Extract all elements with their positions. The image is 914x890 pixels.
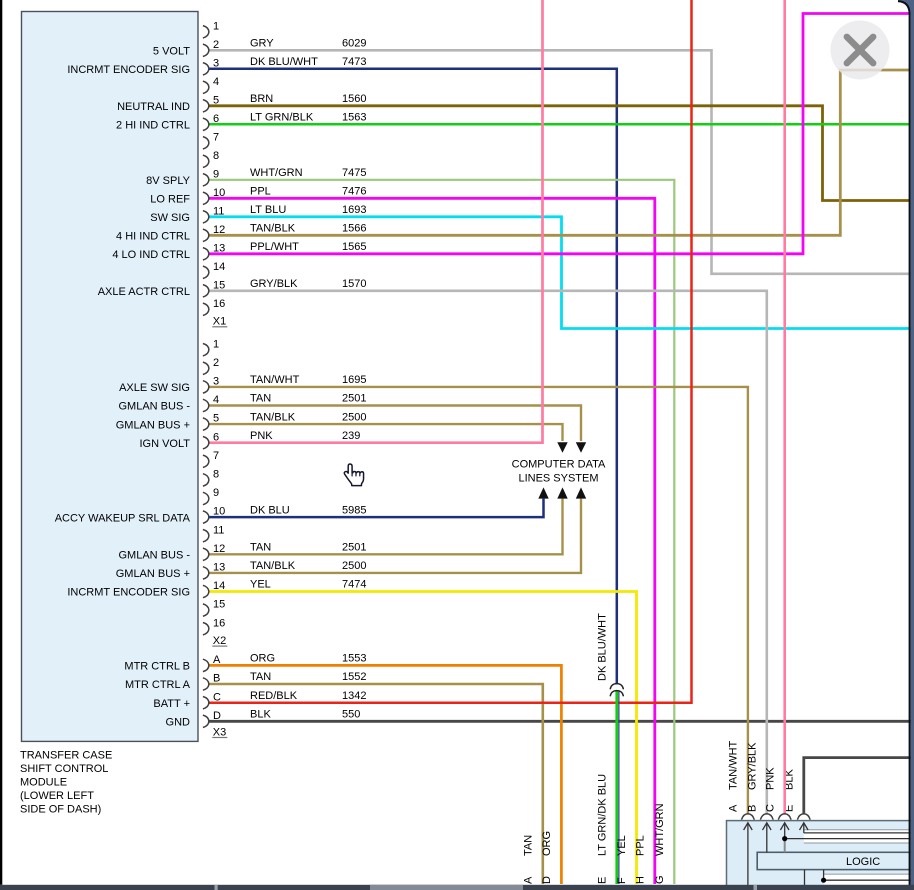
svg-text:3: 3 — [213, 57, 219, 69]
svg-text:1: 1 — [213, 20, 219, 32]
svg-text:PPL: PPL — [635, 835, 647, 856]
logic internal white channel lower — [824, 874, 914, 886]
logic output line with junction to right — [824, 870, 914, 881]
logic pin B connector arc — [760, 814, 773, 820]
connector X2 pin 7 — [203, 450, 219, 468]
transfer case shift control module box — [22, 12, 199, 742]
svg-text:4 HI IND CTRL: 4 HI IND CTRL — [116, 231, 190, 243]
wire LT BLU 1693 from X1 pin 11 — [208, 217, 914, 329]
window left border — [0, 0, 2, 885]
svg-text:4: 4 — [213, 394, 219, 406]
svg-text:16: 16 — [213, 298, 225, 310]
svg-text:10: 10 — [213, 506, 225, 518]
connector X1 pin 6 — [203, 113, 219, 131]
svg-text:D: D — [213, 710, 221, 722]
svg-text:1553: 1553 — [342, 653, 366, 665]
X2 pin 4 wire label TAN 2501 — [250, 393, 366, 405]
connector X2 pin 6 — [203, 431, 219, 449]
X2 pin 5 wire label TAN/BLK 2500 — [250, 411, 366, 423]
svg-text:X3: X3 — [213, 726, 226, 738]
svg-text:TAN/WHT: TAN/WHT — [728, 740, 740, 790]
svg-text:2 HI IND CTRL: 2 HI IND CTRL — [116, 120, 190, 132]
connector X1 pin 12 — [203, 224, 225, 242]
svg-text:LT GRN/DK BLU: LT GRN/DK BLU — [597, 774, 609, 856]
X1 pin 15 wire label GRY/BLK 1570 — [250, 278, 366, 290]
svg-text:6: 6 — [213, 431, 219, 443]
svg-text:8V SPLY: 8V SPLY — [146, 175, 190, 187]
svg-text:12: 12 — [213, 224, 225, 236]
wire TAN/BLK 1566 from X1 pin 12 — [208, 70, 910, 235]
svg-text:BRN: BRN — [250, 93, 273, 105]
arrowhead up at computer data lines col 543 — [538, 487, 548, 498]
wire LT GRN/DK BLU continuation of 7473 — [615, 691, 618, 884]
arrowhead up at computer data lines col 581 — [576, 487, 586, 498]
X3 pin A wire label ORG 1553 — [250, 653, 366, 665]
window right border line — [898, 1, 910, 890]
wire ORG 1553 from X3 pin A — [208, 665, 561, 884]
svg-text:1563: 1563 — [342, 112, 366, 124]
connector X3 pin D — [203, 710, 221, 728]
svg-text:LOGIC: LOGIC — [846, 856, 880, 868]
svg-text:10: 10 — [213, 187, 225, 199]
X1 pin 11 wire label LT BLU 1693 — [250, 204, 366, 216]
svg-text:TAN: TAN — [250, 671, 271, 683]
svg-text:7476: 7476 — [342, 186, 366, 198]
svg-text:DK BLU/WHT: DK BLU/WHT — [597, 613, 609, 681]
svg-text:WHT/GRN: WHT/GRN — [250, 167, 303, 179]
svg-text:B: B — [747, 805, 759, 812]
wire PNK to logic pin C — [783, 0, 786, 813]
svg-text:GND: GND — [166, 717, 191, 729]
svg-text:AXLE ACTR CTRL: AXLE ACTR CTRL — [98, 286, 190, 298]
wire TAN/BLK 2500 from X2 pin 13 to computer data lines — [208, 499, 581, 573]
svg-text:7473: 7473 — [342, 56, 366, 68]
svg-text:TAN: TAN — [523, 835, 535, 856]
svg-text:INCRMT ENCODER SIG: INCRMT ENCODER SIG — [67, 587, 190, 599]
svg-text:MTR CTRL B: MTR CTRL B — [124, 661, 190, 673]
connector X1 pin 15 — [203, 279, 225, 297]
X1 pin 2 wire label GRY 6029 — [250, 38, 366, 50]
svg-text:4 LO IND CTRL: 4 LO IND CTRL — [112, 249, 190, 261]
svg-text:3: 3 — [213, 376, 219, 388]
wire TAN/WHT 1695 from X2 pin 3 — [208, 387, 748, 814]
svg-text:H: H — [635, 876, 647, 884]
svg-text:DK BLU: DK BLU — [250, 504, 290, 516]
svg-text:2501: 2501 — [342, 542, 366, 554]
svg-text:MODULE: MODULE — [20, 777, 67, 789]
wire BRN 1560 from X1 pin 5 — [208, 106, 910, 201]
svg-text:LT BLU: LT BLU — [250, 204, 286, 216]
X2 pin 14 wire label YEL 7474 — [250, 579, 366, 591]
svg-text:12: 12 — [213, 543, 225, 555]
svg-text:BATT +: BATT + — [153, 698, 190, 710]
logic pin A connector arc — [742, 814, 755, 820]
connector X1 pin 7 — [203, 131, 219, 149]
mouse cursor (hand pointer) — [344, 464, 363, 486]
svg-text:LT GRN/BLK: LT GRN/BLK — [250, 112, 314, 124]
X3 pin C wire label RED/BLK 1342 — [250, 690, 366, 702]
svg-text:WHT/GRN: WHT/GRN — [654, 803, 666, 856]
svg-text:11: 11 — [213, 205, 224, 217]
connector X2 pin 9 — [203, 487, 219, 505]
svg-text:5: 5 — [213, 94, 219, 106]
svg-text:14: 14 — [213, 261, 225, 273]
wire BLK 550 from X3 pin D — [208, 720, 914, 723]
svg-text:E: E — [597, 877, 609, 884]
wire RED/BLK 1342 from X3 pin C — [208, 0, 692, 703]
taskbar separator 2 — [754, 885, 758, 890]
connector X1 pin 10 — [203, 187, 225, 205]
connector label X1 — [212, 316, 227, 328]
connector X1 pin 9 — [203, 168, 219, 186]
svg-text:GRY/BLK: GRY/BLK — [250, 278, 298, 290]
svg-text:11: 11 — [213, 524, 224, 536]
svg-text:RED/BLK: RED/BLK — [250, 690, 298, 702]
svg-text:SIDE OF DASH): SIDE OF DASH) — [20, 804, 101, 816]
svg-text:1695: 1695 — [342, 374, 366, 386]
X3 pin D wire label BLK 550 — [250, 709, 360, 721]
svg-text:16: 16 — [213, 617, 225, 629]
svg-text:C: C — [213, 691, 221, 703]
svg-text:(LOWER LEFT: (LOWER LEFT — [20, 790, 94, 802]
svg-text:9: 9 — [213, 168, 219, 180]
svg-text:LO REF: LO REF — [150, 194, 190, 206]
wire TAN 2501 from X2 pin 4 to computer data lines — [208, 406, 581, 442]
connector X2 pin 13 — [203, 562, 225, 580]
connector X2 pin 1 — [203, 338, 219, 356]
logic pin E internal line — [800, 823, 914, 833]
connector X3 pin B — [203, 673, 220, 691]
svg-text:TAN/WHT: TAN/WHT — [250, 374, 300, 386]
svg-text:COMPUTER DATA: COMPUTER DATA — [512, 458, 606, 470]
svg-text:A: A — [213, 654, 221, 666]
wire PPL/WHT 1565 from X1 pin 13 — [208, 14, 910, 254]
svg-text:SW SIG: SW SIG — [150, 212, 190, 224]
svg-text:A: A — [728, 804, 740, 812]
connector X1 pin 14 — [203, 261, 225, 279]
logic pin E connector arc — [797, 814, 810, 820]
svg-text:PPL: PPL — [250, 186, 271, 198]
connector X2 pin 10 — [203, 506, 225, 524]
svg-text:1560: 1560 — [342, 93, 366, 105]
wire PPL 7476 from X1 pin 10 — [208, 198, 655, 884]
svg-text:6: 6 — [213, 113, 219, 125]
X1 pin 10 wire label PPL 7476 — [250, 186, 366, 198]
svg-text:TAN/BLK: TAN/BLK — [250, 223, 296, 235]
wire WHT/GRN 7475 from X1 pin 9 — [208, 180, 674, 884]
wire TAN 1552 from X3 pin B — [208, 684, 543, 884]
svg-text:TRANSFER CASE: TRANSFER CASE — [20, 750, 112, 762]
connector X2 pin 2 — [203, 357, 219, 375]
X1 pin 3 wire label DK BLU/WHT 7473 — [250, 56, 366, 68]
logic output line below bar — [804, 870, 806, 885]
connector X3 pin A — [203, 654, 221, 672]
X2 pin 12 wire label TAN 2501 — [250, 542, 366, 554]
arrowhead up at computer data lines col 562 — [557, 487, 567, 498]
connector X2 pin 15 — [203, 599, 225, 617]
connector X3 pin C — [203, 691, 221, 709]
X2 pin 13 wire label TAN/BLK 2500 — [250, 560, 366, 572]
X1 pin 5 wire label BRN 1560 — [250, 93, 366, 105]
node COMPUTER DATA LINES SYSTEM — [512, 458, 606, 484]
connector X1 pin 3 — [203, 57, 219, 75]
svg-text:INCRMT ENCODER SIG: INCRMT ENCODER SIG — [67, 64, 190, 76]
svg-text:NEUTRAL IND: NEUTRAL IND — [117, 101, 190, 113]
svg-text:4: 4 — [213, 76, 219, 88]
svg-text:D: D — [541, 876, 553, 884]
svg-text:TAN/BLK: TAN/BLK — [250, 411, 296, 423]
svg-text:1: 1 — [213, 338, 219, 350]
svg-text:GMLAN BUS -: GMLAN BUS - — [118, 550, 190, 562]
X1 pin 6 wire label LT GRN/BLK 1563 — [250, 112, 366, 124]
X3 pin B wire label TAN 1552 — [250, 671, 366, 683]
svg-text:GMLAN BUS -: GMLAN BUS - — [118, 401, 190, 413]
wire TAN 2501 from X2 pin 12 to computer data lines — [208, 499, 563, 555]
svg-text:ORG: ORG — [541, 831, 553, 856]
wire break symbol (name change) on 7473 — [610, 684, 623, 697]
svg-text:1570: 1570 — [342, 278, 366, 290]
svg-text:1342: 1342 — [342, 690, 366, 702]
wire GRY/BLK 1570 from X1 pin 15 — [208, 291, 767, 814]
svg-text:PNK: PNK — [250, 430, 273, 442]
svg-text:C: C — [764, 804, 776, 812]
svg-text:7474: 7474 — [342, 579, 366, 591]
svg-text:PNK: PNK — [764, 767, 776, 790]
svg-text:9: 9 — [213, 487, 219, 499]
svg-text:5: 5 — [213, 413, 219, 425]
svg-text:1566: 1566 — [342, 223, 366, 235]
logic module box — [727, 821, 914, 890]
svg-text:BLK: BLK — [250, 709, 271, 721]
wire DK BLU/WHT 7473 from X1 pin 3 — [208, 69, 617, 684]
logic pin B internal line — [763, 823, 772, 853]
svg-text:5 VOLT: 5 VOLT — [153, 46, 190, 58]
svg-text:X1: X1 — [213, 316, 226, 328]
svg-text:PPL/WHT: PPL/WHT — [250, 241, 299, 253]
connector X1 pin 13 — [203, 242, 225, 260]
svg-text:2500: 2500 — [342, 560, 366, 572]
X1 pin 9 wire label WHT/GRN 7475 — [250, 167, 366, 179]
svg-text:TAN: TAN — [250, 393, 271, 405]
svg-text:1552: 1552 — [342, 671, 366, 683]
svg-text:15: 15 — [213, 279, 225, 291]
svg-text:13: 13 — [213, 562, 225, 574]
connector label X3 — [212, 726, 227, 738]
svg-text:6029: 6029 — [342, 38, 366, 50]
X2 pin 10 wire label DK BLU 5985 — [250, 504, 366, 516]
connector X2 pin 14 — [203, 580, 225, 598]
svg-text:GMLAN BUS +: GMLAN BUS + — [116, 568, 190, 580]
svg-text:7: 7 — [213, 450, 219, 462]
X1 pin 12 wire label TAN/BLK 1566 — [250, 223, 366, 235]
logic bar — [757, 852, 914, 869]
wire DK BLU 5985 from X2 pin 10 to computer data lines — [208, 499, 544, 517]
svg-text:GMLAN BUS +: GMLAN BUS + — [116, 419, 190, 431]
svg-text:1693: 1693 — [342, 204, 366, 216]
svg-text:G: G — [654, 875, 666, 884]
wire BLK to logic pin E — [804, 758, 914, 814]
connector X2 pin 8 — [203, 469, 219, 487]
svg-text:DK BLU/WHT: DK BLU/WHT — [250, 56, 318, 68]
wire LT GRN/BLK 1563 from X1 pin 6 — [208, 123, 910, 126]
connector X2 pin 16 — [203, 617, 225, 635]
connector X2 pin 3 — [203, 376, 219, 394]
connector X2 pin 12 — [203, 543, 225, 561]
connector label X2 — [212, 635, 227, 647]
wire TAN/BLK 2500 from X2 pin 5 to computer data lines — [208, 424, 563, 441]
taskbar thumb — [370, 885, 523, 890]
wire YEL 7474 from X2 pin 14 — [208, 592, 637, 885]
svg-text:YEL: YEL — [250, 579, 271, 591]
connector X2 pin 11 — [203, 524, 225, 542]
connector X1 pin 8 — [203, 150, 219, 168]
module caption TRANSFER CASE SHIFT CONTROL MODULE (LOWER LEFT SIDE OF DASH) — [20, 750, 112, 816]
wire PNK 239 from X2 pin 6 — [208, 0, 543, 443]
svg-text:ORG: ORG — [250, 653, 275, 665]
svg-text:X2: X2 — [213, 635, 226, 647]
svg-text:LINES SYSTEM: LINES SYSTEM — [518, 473, 598, 485]
svg-text:YEL: YEL — [616, 835, 628, 856]
svg-text:SHIFT CONTROL: SHIFT CONTROL — [20, 763, 108, 775]
connector X1 pin 4 — [203, 76, 219, 94]
svg-text:IGN VOLT: IGN VOLT — [139, 438, 190, 450]
connector X2 pin 5 — [203, 413, 219, 431]
connector X1 pin 16 — [203, 298, 225, 316]
X2 pin 3 wire label TAN/WHT 1695 — [250, 374, 366, 386]
svg-text:239: 239 — [342, 430, 360, 442]
close button — [831, 21, 890, 80]
logic pin C connector arc — [778, 814, 791, 820]
svg-text:GRY: GRY — [250, 38, 274, 50]
svg-text:TAN/BLK: TAN/BLK — [250, 560, 296, 572]
connector X1 pin 1 — [203, 20, 219, 38]
svg-text:GRY/BLK: GRY/BLK — [747, 742, 759, 790]
logic pin C internal line with junction — [780, 823, 914, 839]
X2 pin 6 wire label PNK 239 — [250, 430, 360, 442]
svg-text:7: 7 — [213, 131, 219, 143]
svg-text:B: B — [213, 673, 220, 685]
svg-text:2500: 2500 — [342, 411, 366, 423]
svg-text:AXLE SW SIG: AXLE SW SIG — [119, 382, 190, 394]
svg-text:13: 13 — [213, 242, 225, 254]
svg-text:7475: 7475 — [342, 167, 366, 179]
svg-text:1565: 1565 — [342, 241, 366, 253]
X1 pin 13 wire label PPL/WHT 1565 — [250, 241, 366, 253]
window right border steel band — [898, 0, 914, 890]
logic internal white channel upper — [804, 829, 914, 843]
connector X2 pin 4 — [203, 394, 219, 412]
arrowhead down at computer data lines col 562 — [557, 442, 567, 453]
svg-text:F: F — [616, 877, 628, 884]
connector X1 pin 2 — [203, 39, 219, 57]
svg-text:550: 550 — [342, 709, 360, 721]
svg-text:ACCY WAKEUP SRL DATA: ACCY WAKEUP SRL DATA — [55, 512, 191, 524]
taskbar separator 1 — [215, 885, 218, 890]
svg-text:MTR CTRL A: MTR CTRL A — [125, 679, 191, 691]
connector X1 pin 5 — [203, 94, 219, 112]
svg-text:2: 2 — [213, 39, 219, 51]
connector X1 pin 11 — [203, 205, 225, 223]
logic pin A internal line — [744, 823, 753, 885]
svg-text:2501: 2501 — [342, 393, 366, 405]
svg-text:15: 15 — [213, 599, 225, 611]
svg-text:8: 8 — [213, 150, 219, 162]
wire GRY 6029 from X1 pin 2 — [208, 50, 914, 273]
svg-text:2: 2 — [213, 357, 219, 369]
svg-text:A: A — [523, 876, 535, 884]
taskbar — [0, 885, 914, 890]
arrowhead down at computer data lines col 581 — [576, 442, 586, 453]
svg-text:TAN: TAN — [250, 542, 271, 554]
svg-text:8: 8 — [213, 469, 219, 481]
svg-text:14: 14 — [213, 580, 225, 592]
svg-text:5985: 5985 — [342, 504, 366, 516]
